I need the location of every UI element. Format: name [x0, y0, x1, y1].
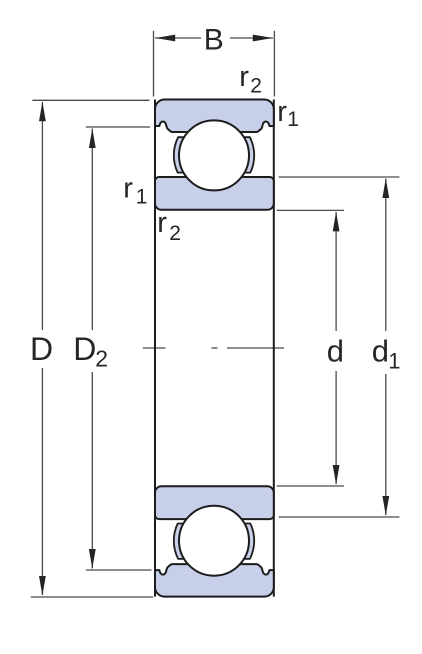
svg-text:d: d — [327, 334, 344, 369]
svg-text:r: r — [239, 61, 249, 93]
svg-text:2: 2 — [95, 346, 108, 372]
svg-text:r: r — [277, 96, 287, 128]
svg-text:D: D — [73, 331, 96, 367]
svg-text:r: r — [123, 173, 133, 205]
svg-text:d: d — [372, 334, 389, 369]
svg-text:1: 1 — [388, 349, 400, 374]
svg-text:B: B — [204, 24, 224, 57]
svg-text:1: 1 — [136, 186, 148, 209]
svg-text:2: 2 — [250, 75, 262, 98]
svg-text:1: 1 — [287, 108, 299, 131]
svg-text:r: r — [157, 207, 167, 239]
svg-text:2: 2 — [169, 222, 181, 245]
svg-text:D: D — [30, 331, 53, 367]
